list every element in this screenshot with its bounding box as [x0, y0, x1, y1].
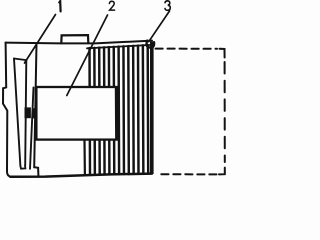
- ribbed coil block 3 : vertical ribs: [90, 45, 149, 175]
- extra short rib left of block below rectangle: [83, 141, 86, 175]
- contact blob: [25, 107, 31, 118]
- dashed outline right: [224, 62, 226, 162]
- leader line 1: [25, 15, 56, 64]
- part 1 slanted plate: left edge: [14, 59, 20, 167]
- label 3: [165, 1, 170, 11]
- body left profile with barb: [3, 43, 11, 177]
- label 2: [109, 1, 114, 10]
- inner wall line B with bottom step: [34, 44, 38, 176]
- leader line 3: [149, 11, 170, 42]
- switch bump on top: [61, 35, 88, 43]
- contact thickening on wall lines: [32, 108, 35, 118]
- part 1 plate foot: [20, 166, 25, 169]
- body bottom edge: [10, 174, 152, 177]
- dashed outline top: [156, 48, 218, 50]
- body top edge: [6, 41, 153, 44]
- part 1 slanted plate: right edge: [25, 60, 26, 165]
- inner wall line A: [30, 87, 34, 168]
- leader line 2: [67, 15, 108, 96]
- coil block top edge: [87, 45, 151, 48]
- inner rectangle 2 (core), white fill covering ribs: [36, 87, 116, 140]
- dashed outline top-right corner: [220, 49, 225, 58]
- part 1 slanted plate: top edge: [14, 59, 26, 61]
- right edge of body (thick): [150, 42, 154, 174]
- hook at leader 3 tip: [147, 41, 155, 48]
- label 1: [59, 1, 60, 11]
- dashed outline bottom-right corner: [219, 168, 225, 175]
- dashed outline bottom: [159, 173, 217, 175]
